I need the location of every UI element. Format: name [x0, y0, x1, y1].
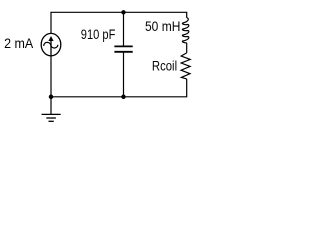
- svg-text:910 pF: 910 pF: [81, 27, 116, 42]
- svg-text:2 mA: 2 mA: [4, 36, 34, 51]
- svg-text:Rcoil: Rcoil: [152, 59, 177, 74]
- svg-text:50 mH: 50 mH: [145, 19, 180, 34]
